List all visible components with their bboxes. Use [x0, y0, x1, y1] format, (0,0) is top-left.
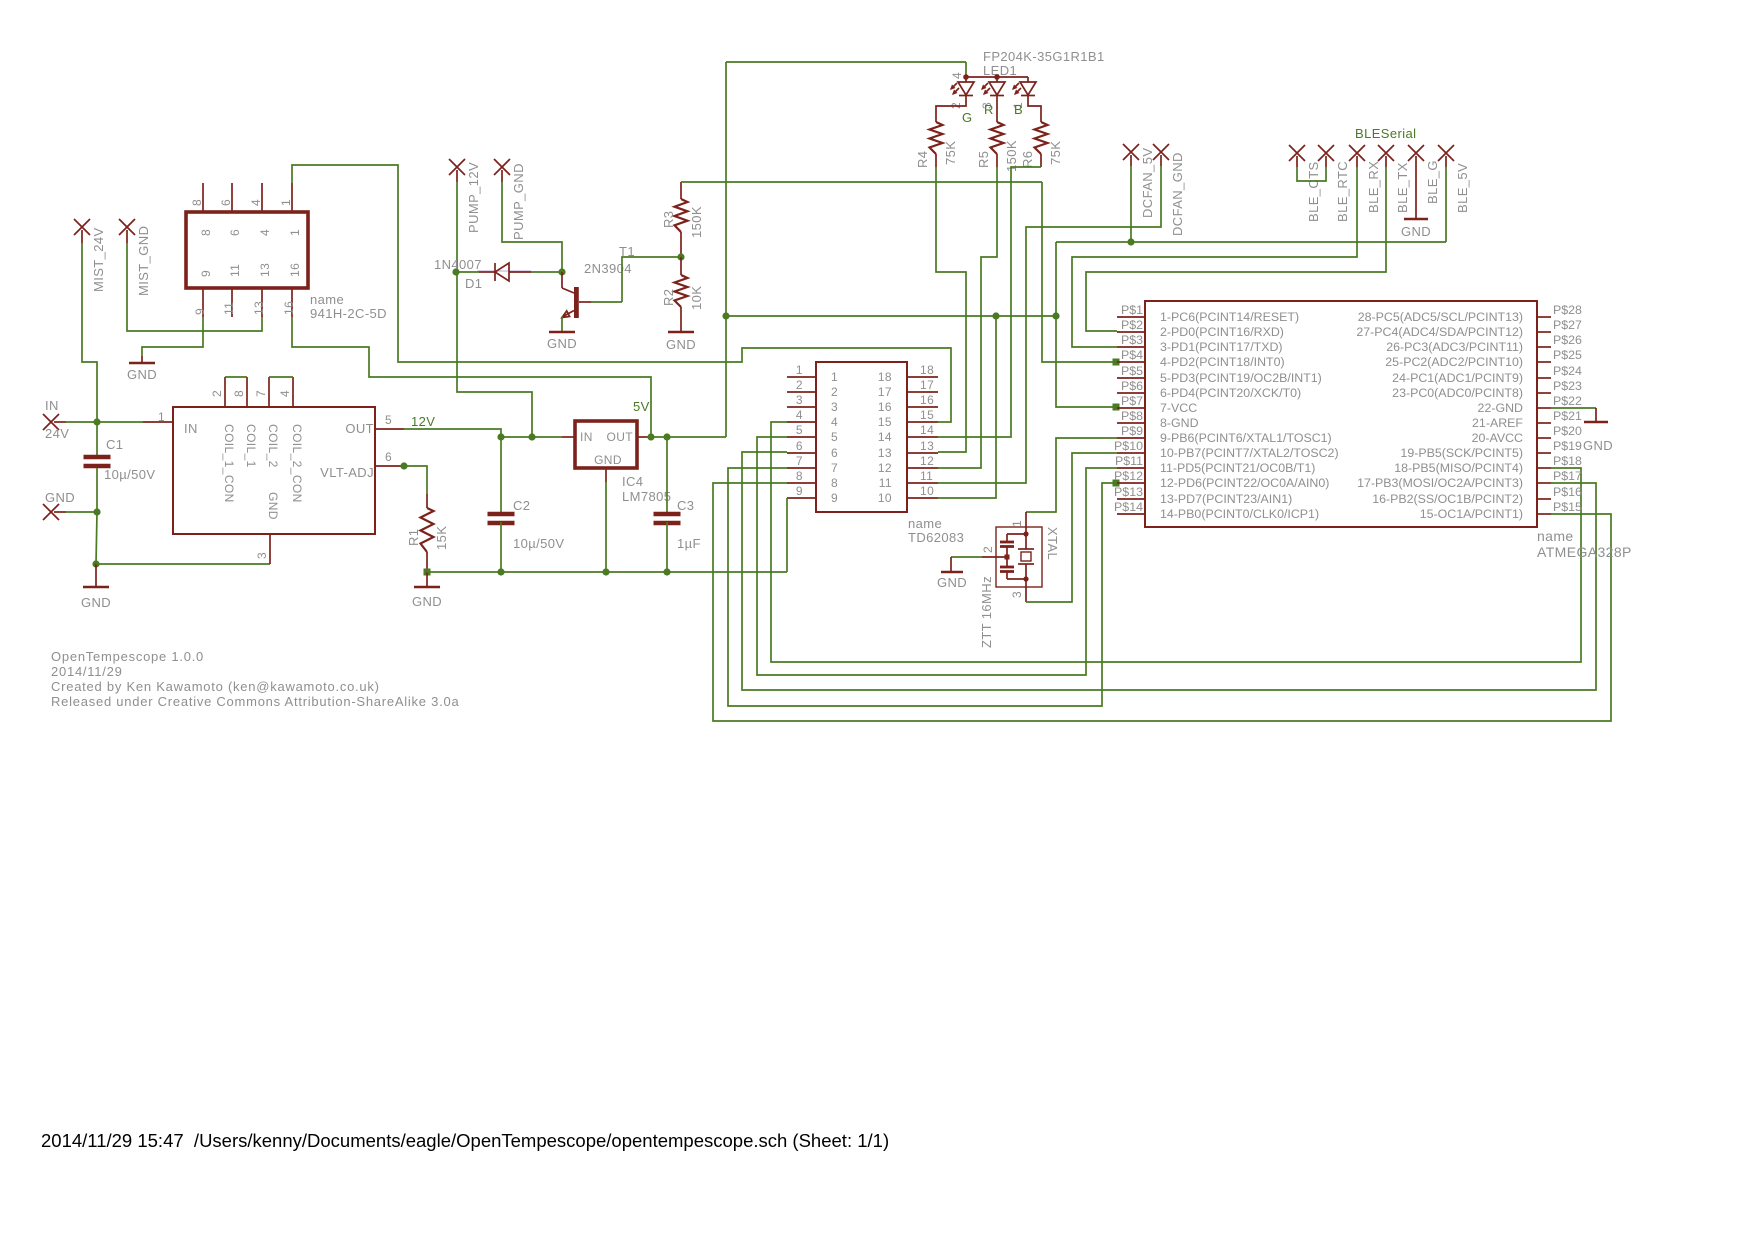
svg-text:LED1: LED1 [983, 63, 1017, 78]
svg-text:MIST_24V: MIST_24V [91, 227, 106, 292]
svg-text:15: 15 [878, 415, 892, 429]
TD62083 right pin 15 stub [907, 421, 938, 423]
wire C1 to GND node [96, 468, 98, 512]
ATMEGA right pin P$26 stub [1537, 346, 1551, 348]
svg-text:IN: IN [580, 430, 593, 444]
svg-text:4-PD2(PCINT18/INT0): 4-PD2(PCINT18/INT0) [1160, 355, 1285, 369]
svg-text:14: 14 [920, 423, 934, 437]
ATMEGA right pin P$25 stub [1537, 361, 1551, 363]
svg-text:P$19: P$19 [1553, 439, 1582, 453]
LED R cathode lead [996, 95, 998, 122]
svg-text:P$24: P$24 [1553, 364, 1582, 378]
svg-text:C3: C3 [677, 498, 694, 513]
svg-text:7: 7 [796, 454, 803, 468]
svg-text:2: 2 [210, 390, 224, 397]
svg-text:P$20: P$20 [1553, 424, 1582, 438]
wire TD62083 pin7 to P$12 [728, 468, 1117, 706]
svg-text:ATMEGA328P: ATMEGA328P [1537, 544, 1632, 560]
ATMEGA left pin P$9 stub [1117, 437, 1145, 439]
regulator IC4 LM7805 body [575, 421, 637, 468]
svg-text:R: R [984, 102, 994, 117]
svg-text:9: 9 [831, 491, 838, 505]
wire DCFAN_GND to TD62083 pin11 [938, 166, 1161, 483]
svg-text:3: 3 [1010, 591, 1024, 598]
net flag MIST_24V [74, 219, 90, 235]
wire R6 to TD62083 pin14 [938, 167, 1041, 437]
svg-text:P$4: P$4 [1121, 348, 1143, 362]
relay bottom pin 16 stub [291, 288, 293, 317]
svg-text:7: 7 [254, 390, 268, 397]
svg-text:P$18: P$18 [1553, 454, 1582, 468]
svg-text:LM7805: LM7805 [622, 489, 671, 504]
svg-text:BLESerial: BLESerial [1355, 126, 1416, 141]
converter pin6 VLT-ADJ stub [375, 465, 401, 467]
LED G cathode lead [936, 95, 966, 122]
svg-text:10: 10 [878, 491, 892, 505]
svg-text:6: 6 [831, 446, 838, 460]
wire DCFAN_5V down [1130, 166, 1132, 242]
svg-text:D1: D1 [465, 276, 482, 291]
TD62083 left pin 8 stub [787, 482, 816, 484]
junction at P$12 [1113, 480, 1120, 487]
junction XTAL internal bottom [1023, 576, 1028, 581]
wire TD62083 pin5 to P$11 [757, 437, 1117, 675]
TD62083 right pin 13 stub [907, 452, 938, 454]
TD62083 right pin 12 stub [907, 467, 938, 469]
junction LED anode 2 [994, 74, 1000, 80]
svg-text:C2: C2 [513, 498, 530, 513]
svg-text:2-PD0(PCINT16/RXD): 2-PD0(PCINT16/RXD) [1160, 325, 1284, 339]
svg-text:3: 3 [831, 400, 838, 414]
ground BLE_G [1415, 156, 1417, 219]
svg-text:11: 11 [920, 469, 933, 483]
R2 top lead [680, 257, 682, 275]
svg-text:8: 8 [232, 390, 246, 397]
svg-text:IC4: IC4 [622, 474, 643, 489]
svg-text:P$10: P$10 [1114, 439, 1143, 453]
svg-text:P$3: P$3 [1121, 333, 1143, 347]
svg-text:8: 8 [190, 199, 204, 206]
svg-text:75K: 75K [1048, 141, 1063, 165]
wire R4 to TD62083 pin13 [936, 167, 966, 452]
svg-text:15-OC1A/PCINT1): 15-OC1A/PCINT1) [1420, 507, 1523, 521]
svg-text:BLE_CTS: BLE_CTS [1306, 161, 1321, 222]
wire MIST_24V to 24V rail [82, 243, 97, 422]
R1 top lead [426, 494, 428, 508]
svg-text:BLE_5V: BLE_5V [1455, 163, 1470, 213]
ground C1 [83, 586, 109, 589]
wire 5V to TD62083 pin10 [938, 316, 996, 498]
wire 24V to C1 [96, 422, 98, 455]
svg-text:COIL_1_CON: COIL_1_CON [222, 424, 236, 503]
svg-text:23-PC0(ADC0/PCINT8): 23-PC0(ADC0/PCINT8) [1392, 386, 1523, 400]
TD62083 left pin 3 stub [787, 406, 816, 408]
svg-text:1: 1 [288, 229, 302, 236]
wire relay pin1 to TD62083 pin15 [292, 165, 951, 422]
wire VLT-ADJ to R1 [401, 466, 427, 494]
svg-text:GND: GND [266, 492, 280, 520]
svg-text:10K: 10K [689, 286, 704, 310]
svg-text:IN: IN [184, 421, 198, 436]
svg-text:1N4007: 1N4007 [434, 257, 482, 272]
svg-text:1: 1 [1010, 520, 1024, 527]
svg-text:18-PB5(MISO/PCINT4): 18-PB5(MISO/PCINT4) [1394, 461, 1523, 475]
svg-text:name: name [908, 516, 942, 531]
svg-text:GND: GND [127, 367, 157, 382]
capacitor C1 10u/50V [84, 455, 111, 460]
TD62083 right pin 11 stub [907, 482, 938, 484]
svg-text:9: 9 [193, 308, 207, 315]
svg-text:B: B [1014, 102, 1023, 117]
svg-text:P$27: P$27 [1553, 318, 1582, 332]
crystal XTAL ZTT 16MHz [996, 527, 1042, 587]
svg-text:16: 16 [920, 393, 934, 407]
wire PUMP_12V to 12V [457, 182, 532, 437]
wire 12V net [404, 429, 562, 437]
wire D1 to collector [531, 271, 562, 273]
svg-text:4: 4 [950, 72, 964, 79]
wire C2 bottom [500, 522, 502, 572]
junction at P$7 [1113, 404, 1120, 411]
TD62083 left pin 9 stub [787, 497, 816, 499]
svg-text:11: 11 [879, 476, 892, 490]
resistor R1 15K [421, 508, 434, 552]
wire TD62083 pin4 to P$18 [771, 422, 1581, 662]
svg-text:C1: C1 [106, 437, 123, 452]
svg-text:GND: GND [547, 336, 577, 351]
svg-text:GND: GND [45, 490, 75, 505]
svg-text:P$21: P$21 [1553, 409, 1582, 423]
wire 5V riser [725, 62, 727, 437]
junction 5V at OUT [647, 433, 654, 440]
wire BLE_TX to P$2 [1086, 167, 1386, 331]
ATMEGA right pin P$19 stub [1537, 452, 1551, 454]
ATMEGA right pin P$21 stub [1537, 422, 1551, 424]
resistor R3 150K [675, 199, 688, 232]
R1 bottom lead [426, 552, 428, 572]
svg-text:13: 13 [258, 263, 272, 277]
R3 bottom lead [680, 232, 682, 257]
resistor R6 75K [1035, 122, 1048, 154]
wire BLE_CTS to BLE_RTC [1297, 167, 1326, 181]
R6 bottom lead [1040, 154, 1042, 167]
wire 5V to LED anode [726, 61, 966, 63]
wire BLE_5V down [1445, 167, 1447, 242]
converter pin5 OUT stub [375, 428, 404, 430]
net flag PUMP_12V [449, 159, 465, 175]
TD62083 left pin 7 stub [787, 467, 816, 469]
svg-text:10µ/50V: 10µ/50V [513, 536, 565, 551]
svg-text:6-PD4(PCINT20/XCK/T0): 6-PD4(PCINT20/XCK/T0) [1160, 386, 1301, 400]
ATMEGA right pin P$16 stub [1537, 498, 1551, 500]
ground relay [129, 362, 155, 365]
junction R1 GND bus [424, 569, 431, 576]
svg-text:R3: R3 [661, 211, 676, 228]
svg-text:14-PB0(PCINT0/CLK0/ICP1): 14-PB0(PCINT0/CLK0/ICP1) [1160, 507, 1319, 521]
svg-text:TD62083: TD62083 [908, 530, 964, 545]
relay bottom pin 11 stub [231, 288, 233, 317]
R4 bottom lead [935, 154, 937, 167]
svg-text:GND: GND [1583, 438, 1613, 453]
IC4 IN stub [562, 436, 575, 438]
junction LED anode 1 [963, 74, 969, 80]
junction 5V branch [722, 312, 729, 319]
wire IC4 GND to bus [605, 482, 607, 572]
TD62083 right pin 14 stub [907, 436, 938, 438]
relay top pin 4 stub [261, 183, 263, 212]
svg-text:BLE_RX: BLE_RX [1366, 161, 1381, 213]
svg-text:4: 4 [831, 415, 838, 429]
svg-text:COIL_2_CON: COIL_2_CON [290, 424, 304, 503]
svg-text:12-PD6(PCINT22/OC0A/AIN0): 12-PD6(PCINT22/OC0A/AIN0) [1160, 476, 1329, 490]
svg-text:OUT: OUT [345, 421, 374, 436]
svg-text:13: 13 [920, 439, 934, 453]
svg-text:MIST_GND: MIST_GND [136, 226, 151, 296]
svg-text:P$25: P$25 [1553, 348, 1582, 362]
svg-text:P$17: P$17 [1553, 469, 1582, 483]
wire 24V in [66, 421, 97, 423]
svg-text:28-PC5(ADC5/SCL/PCINT13): 28-PC5(ADC5/SCL/PCINT13) [1358, 310, 1523, 324]
svg-text:18: 18 [920, 363, 934, 377]
R2 bottom lead [680, 307, 682, 331]
svg-text:DCFAN_GND: DCFAN_GND [1170, 152, 1185, 236]
ghost wire under D1 [477, 270, 531, 272]
svg-text:GND: GND [937, 575, 967, 590]
svg-text:6: 6 [219, 199, 233, 206]
ATMEGA left pin P$14 stub [1117, 513, 1145, 515]
svg-text:GND: GND [1401, 224, 1431, 239]
ATMEGA left pin P$10 stub [1117, 452, 1145, 454]
LED1 anode bus [966, 76, 1028, 78]
wire R5 to TD62083 pin12 [938, 167, 997, 468]
wire to LED anode bus [965, 62, 967, 77]
wire BLE_RX to P$3 [1072, 167, 1357, 347]
svg-text:941H-2C-5D: 941H-2C-5D [310, 306, 387, 321]
transistor T1 2N3904 [561, 272, 563, 288]
svg-text:1: 1 [796, 363, 803, 377]
svg-text:12: 12 [878, 461, 892, 475]
diode D1 1N4007 [479, 271, 495, 273]
junction 12V pump branch [528, 433, 535, 440]
ATMEGA right pin P$18 stub [1537, 467, 1551, 469]
resistor R5 150K [991, 122, 1004, 154]
svg-text:P$2: P$2 [1121, 318, 1143, 332]
XTAL pin1 lead [1025, 512, 1027, 534]
relay top pin 1 stub [291, 183, 293, 212]
svg-text:12: 12 [920, 454, 934, 468]
ATMEGA right pin P$22 stub [1537, 407, 1551, 409]
svg-text:VLT-ADJ: VLT-ADJ [320, 465, 374, 480]
svg-text:18: 18 [878, 370, 892, 384]
XTAL pin2 stub [982, 556, 1007, 558]
ATMEGA right pin P$17 stub [1537, 482, 1551, 484]
ATMEGA left pin P$12 stub [1117, 482, 1145, 484]
svg-text:8: 8 [831, 476, 838, 490]
capacitor C2 10u/50V [488, 512, 515, 517]
net flag MIST_GND [119, 219, 135, 235]
wire 5V from OUT [651, 436, 726, 438]
svg-text:8: 8 [796, 469, 803, 483]
wire 5V to DCFAN junction [1056, 241, 1131, 243]
ATMEGA right pin P$20 stub [1537, 437, 1551, 439]
junction 12V at C2 [497, 433, 504, 440]
svg-text:P$15: P$15 [1553, 500, 1582, 514]
svg-text:11-PD5(PCINT21/OC0B/T1): 11-PD5(PCINT21/OC0B/T1) [1160, 461, 1315, 475]
svg-text:2: 2 [981, 546, 995, 553]
wire R3 top to P$4 net [681, 181, 1042, 183]
TD62083 left pin 4 stub [787, 421, 816, 423]
junction bus C3 [663, 568, 670, 575]
wire PUMP_GND to collector [502, 182, 562, 272]
svg-text:R1: R1 [406, 529, 421, 546]
svg-text:16: 16 [878, 400, 892, 414]
wire TD62083 pin8 to P$15 [713, 483, 1611, 721]
relay bottom pin 13 stub [261, 288, 263, 317]
svg-text:27-PC4(ADC4/SDA/PCINT12): 27-PC4(ADC4/SDA/PCINT12) [1356, 325, 1523, 339]
ground R2 [668, 331, 694, 334]
svg-text:2014/11/29: 2014/11/29 [51, 664, 123, 679]
junction bus C2 [497, 568, 504, 575]
wire P$9 to XTAL pin1 [1026, 438, 1117, 512]
svg-text:11: 11 [222, 302, 236, 315]
relay top pin 8 stub [202, 183, 204, 212]
svg-text:GND: GND [666, 337, 696, 352]
svg-text:4: 4 [249, 199, 263, 206]
ATMEGA right pin P$27 stub [1537, 331, 1551, 333]
svg-text:P$22: P$22 [1553, 394, 1582, 408]
junction XTAL internal top [1023, 531, 1028, 536]
svg-text:P$11: P$11 [1115, 454, 1143, 468]
svg-text:5-PD3(PCINT19/OC2B/INT1): 5-PD3(PCINT19/OC2B/INT1) [1160, 371, 1322, 385]
svg-text:21-AREF: 21-AREF [1472, 416, 1523, 430]
ATMEGA left pin P$11 stub [1117, 467, 1145, 469]
net flag BLE_TX [1378, 145, 1394, 161]
svg-text:R6: R6 [1020, 151, 1035, 168]
svg-text:GND: GND [594, 453, 622, 467]
svg-text:IN: IN [45, 398, 59, 413]
svg-text:6: 6 [385, 450, 392, 464]
junction DCFAN_5V [1127, 238, 1134, 245]
junction 24V node [93, 418, 100, 425]
junction GND bus left [92, 560, 99, 567]
svg-text:DCFAN_5V: DCFAN_5V [1140, 148, 1155, 218]
net flag BLE_G [1408, 145, 1424, 161]
wire 5V horizontal bus [726, 315, 1056, 317]
ATMEGA left pin P$2 stub [1117, 331, 1145, 333]
TD62083 right pin 18 stub [907, 376, 938, 378]
svg-text:G: G [962, 110, 973, 125]
TD62083 left pin 2 stub [787, 391, 816, 393]
svg-text:15: 15 [920, 408, 934, 422]
net flag BLE_5V [1438, 145, 1454, 161]
ATMEGA right pin P$24 stub [1537, 377, 1551, 379]
junction D1 cathode collector [558, 268, 565, 275]
TD62083 left pin 1 stub [787, 376, 816, 378]
ATMEGA left pin P$8 stub [1117, 422, 1145, 424]
svg-text:GND: GND [412, 594, 442, 609]
svg-text:17: 17 [920, 378, 934, 392]
svg-text:75K: 75K [943, 141, 958, 165]
svg-text:OUT: OUT [606, 430, 633, 444]
MCU ATMEGA328P body [1145, 301, 1537, 527]
resistor R2 10K [675, 275, 688, 307]
wire coil2 jumper [269, 376, 293, 378]
svg-text:6: 6 [796, 439, 803, 453]
svg-text:BLE_RTC: BLE_RTC [1335, 161, 1350, 222]
relay top pin 6 stub [231, 183, 233, 212]
wire C2 top [500, 437, 502, 512]
svg-text:11: 11 [228, 264, 242, 277]
ground T1 [549, 331, 575, 334]
wire C3 top [666, 437, 668, 512]
svg-text:name: name [1537, 528, 1574, 544]
svg-text:15K: 15K [434, 526, 449, 550]
svg-text:OpenTempescope 1.0.0: OpenTempescope 1.0.0 [51, 649, 204, 664]
junction D1 anode on PUMP_12V [452, 268, 459, 275]
svg-text:19-PB5(SCK/PCINT5): 19-PB5(SCK/PCINT5) [1400, 446, 1523, 460]
svg-text:P$26: P$26 [1553, 333, 1582, 347]
svg-text:13-PD7(PCINT23/AIN1): 13-PD7(PCINT23/AIN1) [1160, 492, 1292, 506]
svg-text:1: 1 [831, 370, 838, 384]
wire relay pin16 to 5V node [292, 317, 651, 437]
IC4 GND stub [605, 468, 607, 482]
svg-text:2014/11/29 15:47 /Users/kenny: 2014/11/29 15:47 /Users/kenny/Documents/… [41, 1130, 889, 1151]
svg-text:P$13: P$13 [1114, 485, 1143, 499]
junction at P$4 [1113, 359, 1120, 366]
svg-text:BLE_G: BLE_G [1425, 160, 1440, 204]
svg-text:13: 13 [252, 301, 266, 315]
svg-text:R5: R5 [976, 151, 991, 168]
ground P$22 [1584, 421, 1608, 424]
converter coil pin stub x=269 [268, 377, 270, 407]
svg-text:4: 4 [796, 408, 803, 422]
svg-text:24-PC1(ADC1/PCINT9): 24-PC1(ADC1/PCINT9) [1392, 371, 1523, 385]
junction 5V at C3 [663, 433, 670, 440]
svg-text:26-PC3(ADC3/PCINT11): 26-PC3(ADC3/PCINT11) [1386, 340, 1523, 354]
wire MIST_GND to relay pin13 [127, 243, 262, 331]
svg-text:22-GND: 22-GND [1478, 401, 1523, 415]
svg-text:24V: 24V [45, 426, 69, 441]
svg-text:3: 3 [255, 552, 269, 559]
TD62083 right pin 10 stub [907, 497, 938, 499]
converter coil pin stub x=293 [292, 377, 294, 407]
svg-text:P$16: P$16 [1553, 485, 1582, 499]
ATMEGA left pin P$5 stub [1117, 377, 1145, 379]
svg-text:5: 5 [796, 423, 803, 437]
svg-text:P$5: P$5 [1121, 364, 1143, 378]
wire GND node down [96, 512, 97, 564]
R5 bottom lead [996, 154, 998, 167]
svg-text:P$1: P$1 [1121, 303, 1143, 317]
wire C3 bottom [666, 522, 668, 572]
wire T1 base [591, 301, 622, 303]
XTAL pin3 lead [1025, 579, 1027, 602]
net flag DCFAN_GND [1153, 144, 1169, 160]
net flag BLE_RTC [1318, 145, 1334, 161]
svg-text:Created by Ken Kawamoto (ken@k: Created by Ken Kawamoto (ken@kawamoto.co… [51, 679, 380, 694]
svg-text:BLE_TX: BLE_TX [1395, 162, 1410, 213]
svg-text:16: 16 [288, 263, 302, 277]
XTAL internal cap bottom [1000, 566, 1014, 569]
relay bottom pin 9 stub [202, 288, 204, 317]
svg-text:COIL_1: COIL_1 [244, 424, 258, 468]
svg-text:FP204K-35G1R1B1: FP204K-35G1R1B1 [983, 49, 1105, 64]
svg-text:3: 3 [796, 393, 803, 407]
converter coil pin stub x=247 [246, 377, 248, 407]
crystal element [1018, 548, 1034, 550]
svg-text:25-PC2(ADC2/PCINT10): 25-PC2(ADC2/PCINT10) [1385, 355, 1523, 369]
svg-text:4: 4 [278, 390, 292, 397]
